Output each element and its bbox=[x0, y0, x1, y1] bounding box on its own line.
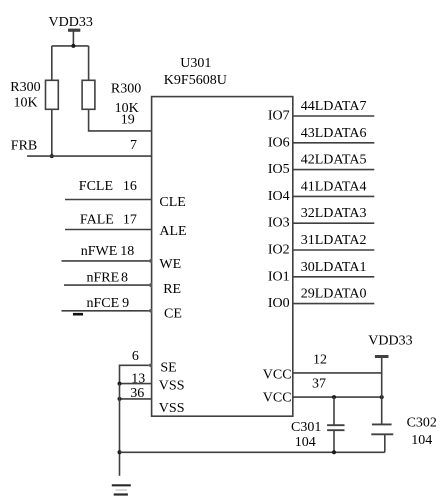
wire nFRE to pin 8 bbox=[64, 284, 152, 286]
wire from VDD33 to resistor tops bbox=[52, 45, 89, 47]
svg-text:VCC: VCC bbox=[263, 367, 292, 382]
svg-text:37: 37 bbox=[312, 377, 326, 392]
svg-text:IO3: IO3 bbox=[268, 216, 290, 231]
svg-text:K9F5608U: K9F5608U bbox=[164, 73, 227, 88]
svg-text:CE: CE bbox=[164, 307, 182, 322]
wire IO3 pin 32 bbox=[293, 222, 375, 224]
wire IO5 pin 42 bbox=[293, 169, 375, 171]
wire IO1 pin 30 bbox=[293, 276, 375, 278]
pin marker WE bbox=[148, 258, 152, 263]
svg-text:C301: C301 bbox=[291, 420, 321, 435]
power symbol VDD33 (top) bbox=[68, 30, 80, 46]
svg-text:VDD33: VDD33 bbox=[368, 334, 412, 349]
svg-text:nFWE: nFWE bbox=[81, 244, 118, 259]
svg-text:13: 13 bbox=[131, 372, 145, 387]
node junction on FRB wire bbox=[50, 154, 54, 158]
svg-text:IO4: IO4 bbox=[268, 189, 290, 204]
svg-text:32LDATA3: 32LDATA3 bbox=[301, 206, 367, 221]
node junction C301 bottom bbox=[332, 450, 336, 454]
svg-text:FRB: FRB bbox=[11, 139, 37, 154]
wire FALE to pin 17 bbox=[65, 229, 152, 231]
svg-text:RE: RE bbox=[163, 282, 181, 297]
wire resistor R300 left bottom lead to FRB bbox=[51, 109, 53, 156]
wire VSS pin 36 bbox=[120, 398, 152, 400]
svg-text:VDD33: VDD33 bbox=[49, 15, 93, 30]
wire resistor R300 right top lead bbox=[88, 46, 90, 80]
stub mark below nFCE wire bbox=[73, 313, 83, 316]
node junction on ground rail bbox=[118, 450, 122, 454]
svg-text:IO1: IO1 bbox=[268, 269, 290, 284]
node junction at VDD33 bbox=[71, 44, 75, 48]
wire VCC pin 12 bbox=[293, 372, 382, 374]
capacitor C302 bbox=[371, 424, 393, 452]
svg-text:19: 19 bbox=[121, 112, 135, 127]
power symbol VDD33 (right) bbox=[375, 357, 389, 425]
wire resistor R300 right bottom lead to pin 19 bbox=[89, 109, 152, 131]
svg-text:12: 12 bbox=[313, 353, 327, 368]
svg-text:R300: R300 bbox=[10, 80, 40, 95]
svg-text:IO0: IO0 bbox=[268, 296, 290, 311]
svg-text:IO7: IO7 bbox=[268, 109, 290, 124]
svg-text:nFCE: nFCE bbox=[87, 296, 120, 311]
svg-text:41LDATA4: 41LDATA4 bbox=[301, 179, 367, 194]
svg-text:VSS: VSS bbox=[159, 401, 185, 416]
wire IO6 pin 43 bbox=[293, 142, 375, 144]
svg-text:7: 7 bbox=[130, 138, 137, 153]
wire IO7 pin 44 bbox=[293, 115, 375, 117]
svg-text:C302: C302 bbox=[407, 416, 437, 431]
svg-text:WE: WE bbox=[159, 257, 181, 272]
IC U301 body outline bbox=[152, 97, 293, 417]
svg-text:FCLE: FCLE bbox=[79, 179, 113, 194]
wire VCC pin 37 bbox=[293, 396, 382, 398]
node junction VSS13 bbox=[118, 382, 122, 386]
svg-text:42LDATA5: 42LDATA5 bbox=[301, 153, 367, 168]
svg-text:29LDATA0: 29LDATA0 bbox=[301, 287, 367, 302]
svg-text:U301: U301 bbox=[180, 56, 211, 71]
svg-text:IO2: IO2 bbox=[268, 243, 290, 258]
capacitor C301 bbox=[327, 397, 344, 452]
resistor R300 left body bbox=[46, 80, 59, 109]
wire resistor R300 left top lead bbox=[51, 46, 53, 80]
svg-text:IO5: IO5 bbox=[268, 162, 290, 177]
svg-text:44LDATA7: 44LDATA7 bbox=[301, 99, 367, 114]
wire SE pin 6 bbox=[120, 365, 152, 383]
svg-text:30LDATA1: 30LDATA1 bbox=[301, 260, 367, 275]
svg-text:18: 18 bbox=[120, 244, 134, 259]
node junction C301 top bbox=[332, 395, 336, 399]
svg-text:8: 8 bbox=[121, 270, 128, 285]
pin marker SE bbox=[148, 363, 152, 368]
pin marker CE bbox=[148, 308, 152, 313]
wire IO0 pin 29 bbox=[293, 303, 375, 305]
svg-text:10K: 10K bbox=[14, 96, 38, 111]
svg-text:104: 104 bbox=[411, 433, 432, 448]
svg-text:104: 104 bbox=[295, 435, 316, 450]
wire FRB to pin 7 bbox=[27, 155, 152, 157]
wire IO2 pin 31 bbox=[293, 249, 375, 251]
wire VSS pin 13 bbox=[120, 383, 152, 385]
svg-text:nFRE: nFRE bbox=[87, 270, 120, 285]
svg-text:FALE: FALE bbox=[80, 213, 114, 228]
svg-text:16: 16 bbox=[123, 179, 137, 194]
svg-text:VSS: VSS bbox=[159, 379, 185, 394]
svg-text:SE: SE bbox=[160, 361, 176, 376]
svg-text:43LDATA6: 43LDATA6 bbox=[301, 126, 367, 141]
pin marker RE bbox=[148, 282, 152, 287]
svg-text:R300: R300 bbox=[111, 81, 141, 96]
wire ground rail bbox=[120, 451, 385, 453]
resistor R300 right body bbox=[82, 80, 95, 109]
wire IO4 pin 41 bbox=[293, 195, 375, 197]
wire vertical to ground bbox=[119, 384, 121, 476]
node junction VSS36 bbox=[118, 397, 122, 401]
svg-text:CLE: CLE bbox=[159, 195, 185, 210]
svg-text:IO6: IO6 bbox=[268, 135, 290, 150]
svg-text:ALE: ALE bbox=[159, 224, 186, 239]
svg-text:17: 17 bbox=[123, 213, 137, 228]
node junction VDD33 vertical on pin37 wire bbox=[380, 395, 384, 399]
svg-text:VCC: VCC bbox=[263, 391, 292, 406]
wire FCLE to pin 16 bbox=[65, 199, 152, 201]
svg-text:6: 6 bbox=[132, 349, 139, 364]
ground symbol bbox=[112, 485, 131, 494]
svg-text:9: 9 bbox=[122, 296, 129, 311]
svg-text:31LDATA2: 31LDATA2 bbox=[301, 233, 367, 248]
svg-text:36: 36 bbox=[130, 386, 144, 401]
wire nFCE to pin 9 bbox=[62, 310, 152, 312]
wire nFWE to pin 18 bbox=[62, 260, 152, 262]
